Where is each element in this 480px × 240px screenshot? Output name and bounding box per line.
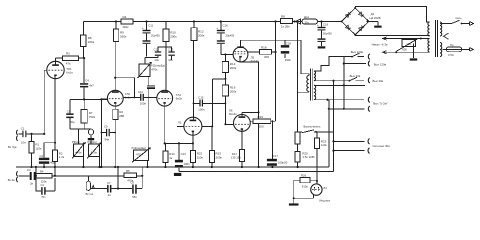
svg-text:1.5к 10Вт: 1.5к 10Вт bbox=[302, 155, 315, 159]
svg-text:Пр: Пр bbox=[450, 43, 454, 47]
svg-text:260к: 260к bbox=[120, 35, 127, 39]
svg-text:С1: С1 bbox=[21, 127, 25, 131]
svg-text:470к: 470к bbox=[91, 150, 98, 154]
svg-text:Р10(вч): Р10(вч) bbox=[88, 140, 97, 144]
svg-text:С15: С15 bbox=[198, 95, 204, 99]
svg-text:200к: 200к bbox=[230, 90, 237, 94]
svg-text:100н: 100н bbox=[140, 101, 147, 105]
svg-text:R26: R26 bbox=[301, 174, 307, 178]
svg-text:10н: 10н bbox=[155, 58, 160, 62]
svg-text:С16: С16 bbox=[223, 24, 229, 28]
svg-text:Сеть: Сеть bbox=[456, 16, 463, 20]
svg-text:50μ450: 50μ450 bbox=[323, 32, 332, 36]
svg-text:Р9(нч): Р9(нч) bbox=[72, 140, 80, 144]
svg-text:6н2п: 6н2п bbox=[176, 97, 183, 101]
svg-text:6п14п: 6п14п bbox=[251, 59, 259, 63]
svg-text:С7: С7 bbox=[107, 181, 111, 185]
svg-text:Л4: Л4 bbox=[323, 186, 327, 190]
svg-text:110к: 110к bbox=[35, 146, 42, 150]
svg-text:200к: 200к bbox=[216, 155, 223, 159]
svg-text:R4: R4 bbox=[123, 15, 127, 19]
svg-text:+: + bbox=[317, 23, 319, 27]
svg-text:R3: R3 bbox=[66, 52, 70, 56]
svg-text:С4: С4 bbox=[85, 79, 89, 83]
svg-text:110к: 110к bbox=[122, 25, 129, 29]
svg-text:Сигн вых 30в: Сигн вых 30в bbox=[373, 144, 391, 148]
svg-text:600: 600 bbox=[402, 48, 407, 52]
svg-text:470к: 470к bbox=[75, 150, 82, 154]
svg-text:300: 300 bbox=[264, 55, 269, 59]
svg-text:100н: 100н bbox=[198, 108, 205, 112]
svg-text:470к: 470к bbox=[151, 67, 158, 71]
svg-text:С12: С12 bbox=[138, 90, 144, 94]
svg-text:R19: R19 bbox=[258, 115, 264, 119]
svg-text:750к: 750к bbox=[89, 115, 96, 119]
svg-text:20μ450: 20μ450 bbox=[226, 34, 235, 38]
svg-text:С11: С11 bbox=[148, 24, 153, 28]
svg-text:94н: 94н bbox=[105, 138, 110, 142]
svg-text:110к: 110к bbox=[197, 155, 204, 159]
svg-text:100п: 100п bbox=[184, 162, 191, 166]
svg-text:0.5А: 0.5А bbox=[448, 53, 454, 57]
svg-text:200к: 200к bbox=[198, 34, 205, 38]
svg-text:100: 100 bbox=[406, 42, 411, 46]
svg-text:70п: 70п bbox=[41, 195, 46, 199]
svg-text:С12: С12 bbox=[154, 47, 159, 51]
svg-text:С4: С4 bbox=[41, 183, 45, 187]
svg-text:+: + bbox=[216, 26, 218, 30]
svg-text:Вых "5 Ом": Вых "5 Ом" bbox=[373, 102, 387, 106]
svg-text:Др1: Др1 bbox=[304, 15, 309, 19]
svg-text:Выключатель: Выключатель bbox=[304, 124, 321, 128]
svg-text:С14: С14 bbox=[181, 152, 187, 156]
svg-text:40μ: 40μ bbox=[50, 160, 55, 164]
svg-text:С2: С2 bbox=[40, 154, 44, 158]
svg-text:Вх тнх: Вх тнх bbox=[86, 192, 94, 196]
svg-text:100μ50: 100μ50 bbox=[278, 160, 288, 164]
svg-text:С5: С5 bbox=[67, 109, 71, 113]
svg-text:Р12(перЕд): Р12(перЕд) bbox=[132, 146, 146, 150]
svg-text:280: 280 bbox=[119, 114, 124, 118]
svg-text:200к: 200к bbox=[170, 35, 177, 39]
svg-text:50μ: 50μ bbox=[70, 120, 75, 124]
svg-text:200: 200 bbox=[259, 125, 264, 129]
svg-text:2н: 2н bbox=[108, 193, 112, 197]
svg-text:6п14п: 6п14п bbox=[229, 112, 237, 116]
svg-text:1.2к: 1.2к bbox=[59, 155, 65, 159]
svg-text:1к 2Вт: 1к 2Вт bbox=[281, 24, 290, 28]
svg-text:910к: 910к bbox=[302, 184, 309, 188]
svg-text:10н: 10н bbox=[21, 140, 26, 144]
svg-text:Вх Чув: Вх Чув bbox=[8, 145, 17, 149]
svg-text:Накал ~6.3в: Накал ~6.3в bbox=[372, 43, 388, 47]
svg-text:220к: 220к bbox=[88, 40, 95, 44]
svg-text:+: + bbox=[142, 26, 144, 30]
svg-text:Вых 120в: Вых 120в bbox=[351, 50, 364, 54]
svg-text:47к: 47к bbox=[66, 62, 71, 66]
svg-text:110к: 110к bbox=[321, 143, 328, 147]
svg-text:Инд вых: Инд вых bbox=[319, 198, 330, 202]
svg-text:Л2: Л2 bbox=[178, 120, 182, 124]
svg-text:Ц4 202В: Ц4 202В bbox=[370, 16, 381, 20]
svg-text:6н1п: 6н1п bbox=[66, 71, 73, 75]
svg-text:С17: С17 bbox=[273, 154, 279, 158]
svg-text:С9: С9 bbox=[104, 125, 108, 129]
svg-text:Вых 30в: Вых 30в bbox=[350, 74, 361, 78]
svg-text:56п: 56п bbox=[132, 195, 137, 199]
svg-text:R18: R18 bbox=[261, 46, 267, 50]
svg-text:20μ450: 20μ450 bbox=[151, 34, 160, 38]
svg-text:С19: С19 bbox=[323, 23, 329, 27]
svg-text:390п: 390п bbox=[285, 58, 292, 62]
svg-text:4н7: 4н7 bbox=[89, 84, 94, 88]
svg-text:R4: R4 bbox=[40, 169, 44, 173]
svg-text:200к: 200к bbox=[230, 66, 237, 70]
svg-text:С13: С13 bbox=[168, 47, 173, 51]
svg-text:130 1Вт: 130 1Вт bbox=[231, 155, 242, 159]
svg-text:Вх 2в: Вх 2в bbox=[8, 178, 15, 182]
svg-text:С18: С18 bbox=[286, 41, 292, 45]
svg-text:10н: 10н bbox=[168, 58, 173, 62]
svg-text:3Гн: 3Гн bbox=[305, 20, 310, 24]
svg-text:120к: 120к bbox=[41, 180, 48, 184]
svg-text:Вых 30в: Вых 30в bbox=[373, 79, 384, 83]
svg-text:С3: С3 bbox=[27, 168, 31, 172]
svg-text:Вых 120в: Вых 120в bbox=[374, 63, 387, 67]
svg-text:R8: R8 bbox=[281, 15, 285, 19]
svg-text:470к: 470к bbox=[136, 153, 143, 157]
svg-text:R5: R5 bbox=[126, 169, 130, 173]
svg-text:2н: 2н bbox=[30, 181, 34, 185]
svg-text:С6: С6 bbox=[130, 181, 134, 185]
